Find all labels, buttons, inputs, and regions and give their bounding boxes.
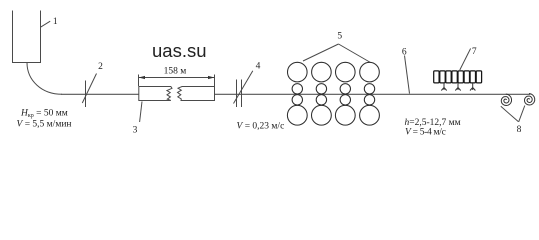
rolling stand 2 of group 5 <box>312 62 332 125</box>
svg-text:1: 1 <box>53 17 58 27</box>
wire main line left section <box>61 93 139 95</box>
leader to label 7 <box>460 49 471 71</box>
svg-text:V = 5,5 м/мин: V = 5,5 м/мин <box>17 120 72 130</box>
svg-text:h=2,5-12,7 мм: h=2,5-12,7 мм <box>405 118 461 128</box>
svg-text:uas.su: uas.su <box>152 40 207 61</box>
furnace right part 3 <box>178 87 215 101</box>
legs of device 7 <box>441 83 475 91</box>
leader lines to label 5 <box>303 44 371 63</box>
dimension arrowheads <box>139 76 215 79</box>
svg-text:7: 7 <box>472 47 477 57</box>
rolling stand 4 of group 5 <box>360 62 380 125</box>
strand curve from mold <box>27 63 62 95</box>
rolling stands 5: four 4-high stands <box>287 62 379 125</box>
slash leader 4 <box>234 71 253 104</box>
shear tick 2 <box>85 81 87 108</box>
slash leader 2 <box>82 74 96 104</box>
shear ticks 4 <box>237 80 242 108</box>
leaders to label 8 <box>501 106 525 122</box>
coiler spiral left 8 <box>501 94 511 106</box>
rolling stand 1 of group 5 (4-high: backup-work-work-backup rolls) <box>287 62 307 125</box>
dimension line 158m <box>139 77 215 79</box>
coiler spiral right 8 <box>525 94 535 106</box>
svg-text:3: 3 <box>133 125 138 135</box>
svg-text:Hкр = 50 мм: Hкр = 50 мм <box>20 109 68 120</box>
svg-text:4: 4 <box>256 61 261 71</box>
svg-text:8: 8 <box>517 125 522 135</box>
svg-text:6: 6 <box>402 48 407 58</box>
svg-text:V = 0,23 м/с: V = 0,23 м/с <box>237 122 285 132</box>
svg-text:158 м: 158 м <box>164 67 187 77</box>
wire main line right section <box>215 93 531 95</box>
leader to label 3 <box>140 102 142 123</box>
furnace left part 3 <box>139 87 172 101</box>
leader to label 1 <box>41 21 51 27</box>
mold vessel 1 <box>13 11 41 63</box>
cooling device 7: comb of 8 cells <box>434 71 482 83</box>
svg-text:2: 2 <box>98 62 103 72</box>
rolling stand 3 of group 5 <box>335 62 355 125</box>
svg-text:5: 5 <box>337 31 342 41</box>
svg-text:V = 5-4 м/с: V = 5-4 м/с <box>405 128 446 138</box>
dimension extension lines <box>139 75 215 87</box>
leader to label 6 <box>405 56 410 94</box>
